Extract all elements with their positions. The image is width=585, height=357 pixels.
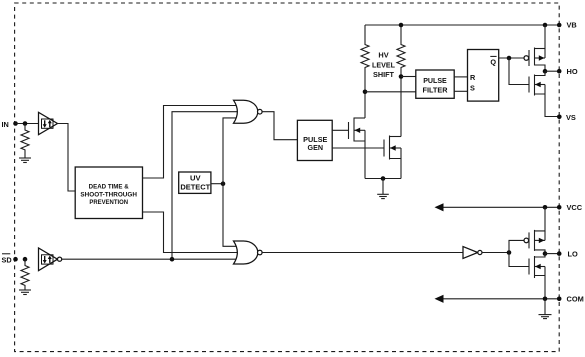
inverter U3 <box>463 247 482 259</box>
svg-text:SHIFT: SHIFT <box>373 70 394 79</box>
node LO junction <box>543 251 548 256</box>
ground (level shift) <box>377 179 389 199</box>
block: UV DETECT <box>179 172 211 193</box>
wire pulse filter to latch R <box>454 76 467 78</box>
wire inverter to driver gates <box>482 252 509 254</box>
wire pulse filter to latch S <box>454 90 467 92</box>
wire dead-time bottom output to NOR2 input2 <box>143 212 240 253</box>
node UV junction <box>221 181 226 186</box>
NOR gate G2 (bottom) <box>234 241 263 264</box>
wire UV detect output <box>211 183 223 185</box>
pin HO <box>557 67 578 76</box>
svg-text:LO: LO <box>568 249 579 258</box>
wire Q4 source to VS <box>545 94 559 117</box>
svg-text:PREVENTION: PREVENTION <box>89 199 128 206</box>
node SD branch <box>170 257 175 262</box>
node IN junction <box>23 121 28 126</box>
transistor Q3 (high-side PMOS) <box>524 25 545 71</box>
node R1 bottom <box>363 90 368 95</box>
wire LO node to pin <box>545 253 559 255</box>
svg-text:PULSE: PULSE <box>423 77 447 85</box>
NOR gate G1 (top) <box>234 100 263 123</box>
wire SD branch to NOR1 input2 <box>172 112 240 260</box>
pin LO <box>557 249 578 258</box>
svg-text:Q: Q <box>490 57 496 66</box>
pin VB <box>557 21 577 30</box>
pin VCC <box>557 203 583 212</box>
svg-text:R: R <box>470 73 476 82</box>
wire G1 to pulse gen <box>262 112 297 140</box>
pin IN <box>2 120 18 129</box>
wire UV to NOR1 input3 <box>223 118 240 184</box>
schmitt inverter U2 (SD) <box>39 248 62 271</box>
block: PULSE GEN <box>297 120 332 160</box>
svg-text:DEAD TIME &: DEAD TIME & <box>89 184 130 191</box>
svg-text:SHOOT-THROUGH: SHOOT-THROUGH <box>80 191 137 198</box>
wire G2 to inverter <box>262 252 463 254</box>
svg-text:IN: IN <box>2 120 9 129</box>
wire UV to NOR2 input1 <box>223 184 240 247</box>
node R2 bottom <box>399 74 404 79</box>
transistor Q4 (high-side NMOS) <box>529 71 545 95</box>
svg-text:FILTER: FILTER <box>423 86 448 94</box>
transistor Q6 (low-side NMOS) <box>529 254 545 278</box>
wire pulse gen output A to Q1 gate <box>332 129 348 131</box>
svg-text:S: S <box>470 83 475 92</box>
svg-text:VCC: VCC <box>567 203 583 212</box>
svg-text:UV: UV <box>190 174 201 183</box>
node VCC tap <box>543 205 548 210</box>
wire common source rail <box>365 178 401 180</box>
wire buffer to dead-time block <box>58 124 76 192</box>
wire Q1 source down <box>364 141 366 179</box>
node HO junction <box>543 69 548 74</box>
wire Qbar to Q4 gate <box>509 58 529 85</box>
wire pulse gen output B to Q2 gate <box>332 147 384 149</box>
label HV LEVEL SHIFT <box>372 51 395 80</box>
wire IN to buffer <box>16 123 39 125</box>
node R2 top <box>399 23 404 28</box>
wire VCC rail with arrow <box>435 203 559 211</box>
wire Q6 source to COM <box>544 276 546 299</box>
pin VS <box>557 113 576 122</box>
transistor Q1 (level-shift NMOS left) <box>349 118 366 142</box>
wire R2 node to pulse filter R input <box>401 76 416 78</box>
ground (IN pulldown) <box>19 158 31 163</box>
block: PULSE FILTER <box>416 70 454 98</box>
svg-text:VB: VB <box>567 21 577 30</box>
wire to Q6 gate <box>509 253 529 267</box>
svg-text:GEN: GEN <box>308 143 324 152</box>
pin SD <box>2 254 18 265</box>
node SD junction <box>23 257 28 262</box>
svg-text:VS: VS <box>566 113 576 122</box>
ground (SD pulldown) <box>19 290 31 295</box>
pin COM <box>557 295 584 304</box>
transistor Q2 (level-shift NMOS right) <box>384 136 401 160</box>
ground (COM) <box>539 299 552 319</box>
wire Qbar to driver gates <box>499 57 524 59</box>
transistor Q5 (low-side PMOS) <box>524 207 545 253</box>
wire to Q5 gate <box>509 240 524 252</box>
wire COM rail with arrow <box>435 295 559 303</box>
svg-text:SD: SD <box>2 256 12 265</box>
wire R1 node to pulse filter S input <box>365 91 416 93</box>
resistor R1 (HV level shift left) <box>361 25 369 92</box>
block: RS latch <box>468 50 499 102</box>
node COM junction <box>543 297 548 302</box>
resistor R2 (HV level shift right) <box>397 25 405 77</box>
block: DEAD TIME & SHOOT-THROUGH PREVENTION <box>75 167 142 219</box>
wire VB rail <box>365 24 559 26</box>
node VB tap <box>543 23 548 28</box>
svg-text:LEVEL: LEVEL <box>372 60 395 69</box>
svg-text:HO: HO <box>567 67 578 76</box>
resistor R_SD pulldown <box>21 259 29 289</box>
node source junction <box>381 176 386 181</box>
svg-text:COM: COM <box>567 295 584 304</box>
svg-text:DETECT: DETECT <box>180 182 210 191</box>
svg-text:HV: HV <box>378 51 388 60</box>
resistor R_IN pulldown <box>21 124 29 158</box>
wire R2 bottom to Q2 drain <box>400 77 402 137</box>
wire HO node to pin <box>545 70 559 72</box>
wire R1 bottom to Q1 drain <box>364 92 366 118</box>
wire Q2 source down <box>400 159 402 179</box>
wire SD to NOR2 input3 <box>62 258 240 260</box>
node Qbar junction <box>507 56 512 61</box>
wire dead-time top output to NOR1 input1 <box>143 106 240 179</box>
node LO driver gate junction <box>507 250 512 255</box>
schmitt buffer U1 (IN) <box>39 112 58 134</box>
